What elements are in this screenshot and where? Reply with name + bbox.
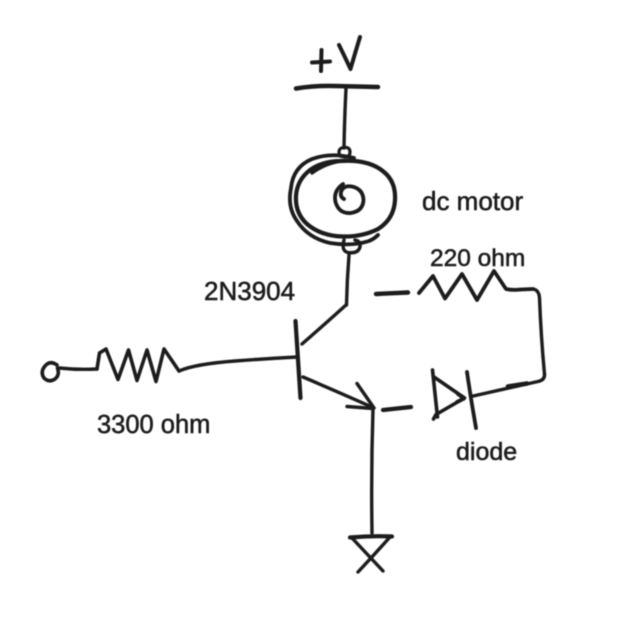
wire terminal to 3300 ohm [59,368,97,369]
wire dash collector to 220 ohm [376,293,408,295]
transistor Q1 emitter stroke [303,377,373,408]
diode D1 triangle [433,370,465,419]
ground symbol [350,536,392,572]
wire dash overlap on diode wire [508,384,527,387]
dc motor M1 rotor spiral [335,184,364,213]
transistor Q1 base bar [296,321,301,398]
dc motor M1 body [290,155,395,244]
svg-text:3300 ohm: 3300 ohm [97,411,210,439]
wire input to base (from 3300 ohm) [179,357,297,371]
transistor Q1 2N3904 collector stroke [302,305,346,344]
input terminal circle [42,363,58,381]
dc motor M1 top terminal [339,147,350,157]
dc motor M1 bottom terminal [343,240,360,253]
svg-text:dc motor: dc motor [422,186,523,216]
resistor R2 220 ohm [419,271,533,300]
wire 220 ohm to right corner down [533,289,545,374]
wire dash emitter to diode [383,407,411,410]
wire motor to collector [347,255,350,305]
wire supply bar to motor [344,88,346,148]
power supply rail bar [296,86,378,89]
wire right corner to diode cathode [471,374,545,397]
wire emitter to ground [372,409,373,533]
svg-text:2N3904: 2N3904 [204,276,295,306]
resistor R1 3300 ohm [97,349,179,382]
node +V label [312,37,360,71]
svg-text:diode: diode [456,438,517,466]
svg-text:220 ohm: 220 ohm [430,245,525,272]
transistor Q1 emitter arrowhead [347,384,374,409]
diode D1 cathode bar [467,372,476,428]
